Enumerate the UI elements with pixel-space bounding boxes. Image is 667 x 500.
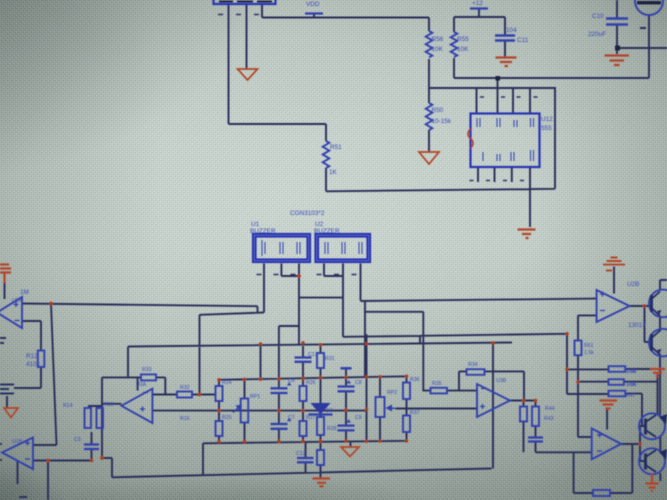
svg-text:U3A: U3A — [136, 382, 147, 388]
svg-text:C3: C3 — [74, 437, 81, 443]
svg-text:RP1: RP1 — [250, 394, 260, 400]
svg-text:R36: R36 — [410, 377, 420, 383]
svg-text:R31: R31 — [325, 356, 335, 362]
svg-text:R14: R14 — [63, 403, 73, 409]
svg-text:C7: C7 — [288, 415, 295, 421]
svg-text:1.5k: 1.5k — [626, 369, 636, 375]
svg-text:C11: C11 — [517, 37, 529, 44]
svg-text:R33: R33 — [142, 367, 152, 373]
svg-text:1.5k: 1.5k — [584, 350, 594, 356]
svg-text:220uF: 220uF — [588, 31, 606, 38]
svg-text:R34: R34 — [468, 362, 478, 368]
svg-text:R27: R27 — [306, 415, 316, 421]
svg-text:U1B: U1B — [12, 439, 23, 445]
svg-text:VDD: VDD — [306, 1, 320, 8]
svg-text:C13: C13 — [308, 352, 318, 358]
svg-text:C8: C8 — [355, 380, 362, 386]
svg-text:R32: R32 — [180, 385, 190, 391]
svg-text:C10: C10 — [592, 13, 604, 20]
svg-text:U2B: U2B — [627, 281, 639, 288]
svg-text:U12: U12 — [541, 116, 553, 123]
svg-text:C9: C9 — [355, 415, 362, 421]
svg-text:R50: R50 — [432, 107, 444, 114]
svg-text:R37: R37 — [410, 410, 420, 416]
svg-text:U2: U2 — [315, 221, 324, 228]
svg-text:1K: 1K — [329, 169, 338, 176]
svg-text:10K: 10K — [457, 46, 469, 53]
svg-text:C6: C6 — [288, 378, 295, 384]
svg-text:C12: C12 — [296, 451, 306, 457]
svg-text:R61: R61 — [584, 343, 594, 349]
svg-text:10-15k: 10-15k — [432, 118, 452, 125]
svg-text:R26: R26 — [306, 380, 316, 386]
svg-text:555: 555 — [541, 125, 552, 132]
svg-text:R35: R35 — [432, 381, 442, 387]
svg-text:BUZZER: BUZZER — [314, 228, 340, 235]
svg-text:410k: 410k — [26, 361, 41, 368]
svg-text:R44: R44 — [545, 406, 555, 412]
svg-text:BUZZER: BUZZER — [250, 228, 276, 235]
svg-text:+12: +12 — [472, 0, 483, 7]
svg-text:R15: R15 — [104, 402, 114, 408]
svg-text:R12: R12 — [26, 353, 38, 360]
svg-text:R16: R16 — [180, 416, 190, 422]
svg-text:R47: R47 — [626, 393, 636, 399]
svg-text:U1A: U1A — [12, 298, 23, 304]
svg-text:R55: R55 — [457, 36, 469, 43]
svg-text:R28: R28 — [327, 426, 337, 432]
svg-text:1M: 1M — [20, 289, 29, 296]
svg-text:U3B: U3B — [496, 378, 507, 384]
svg-text:RP2: RP2 — [387, 390, 397, 396]
svg-text:D3: D3 — [326, 408, 333, 414]
svg-text:R56: R56 — [432, 36, 444, 43]
svg-text:R43: R43 — [544, 416, 554, 422]
svg-text:CGN3103*2: CGN3103*2 — [290, 210, 325, 217]
svg-text:1.5k: 1.5k — [626, 382, 636, 388]
svg-text:R51: R51 — [330, 144, 342, 151]
svg-text:104: 104 — [506, 27, 517, 34]
svg-text:R24: R24 — [222, 380, 232, 386]
svg-text:R25: R25 — [222, 415, 232, 421]
svg-text:13013: 13013 — [628, 322, 646, 329]
svg-text:U1: U1 — [251, 221, 260, 228]
svg-text:10K: 10K — [432, 46, 444, 53]
